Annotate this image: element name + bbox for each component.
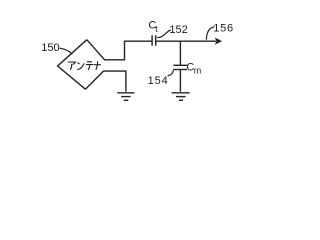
svg-text:m: m: [194, 66, 202, 76]
svg-text:150: 150: [41, 42, 59, 54]
svg-text:152: 152: [169, 24, 187, 36]
svg-text:154: 154: [148, 75, 169, 87]
svg-text:t: t: [155, 24, 158, 34]
svg-text:156: 156: [213, 23, 234, 35]
